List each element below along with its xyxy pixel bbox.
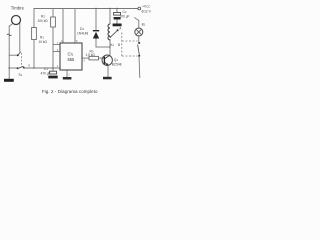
transistor Q1 circle: [102, 55, 112, 65]
svg-text:+VCC: +VCC: [142, 5, 150, 9]
svg-text:R2: R2: [41, 15, 45, 19]
wire R2 branch from rail down to R2: [52, 9, 54, 18]
junction dot diode/coil: [109, 46, 110, 47]
transistor Q1 emitter stroke: [105, 62, 108, 65]
svg-text:B: B: [118, 43, 120, 47]
lamp contact upper dot: [138, 42, 140, 44]
resistor R2 body: [51, 17, 56, 27]
bell (Timbre) gong circle: [12, 16, 21, 25]
wire bell left lead attach: [9, 23, 13, 26]
dashed horizontal lower to lamp contact: [122, 55, 138, 57]
lamp L1 cross stroke 2: [136, 29, 142, 35]
svg-text:10 kΩ: 10 kΩ: [39, 40, 48, 44]
junction dot rail/C2: [116, 8, 117, 9]
svg-text:100 kΩ: 100 kΩ: [38, 19, 49, 23]
wire diode anode to collector node: [95, 39, 97, 48]
svg-text:x: x: [28, 64, 30, 68]
svg-text:D1: D1: [80, 27, 84, 31]
switch S1b far dot: [23, 67, 25, 69]
svg-text:BC548: BC548: [112, 63, 122, 67]
wire C2 from rail: [116, 9, 118, 13]
svg-text:S1: S1: [19, 73, 23, 77]
wire switch S1b to IC pin 2: [24, 67, 60, 69]
svg-text:K1: K1: [111, 43, 115, 47]
svg-text:1N4148: 1N4148: [77, 32, 88, 36]
wire node X horizontal left segment: [9, 67, 17, 69]
ground bell side: [4, 79, 14, 82]
capacitor C1 top plate: [50, 71, 57, 74]
wire top +V rail: [34, 8, 138, 10]
wire diode to relay coil line: [96, 46, 110, 48]
relay contact A dot: [117, 29, 119, 31]
wire C2 to ground: [116, 20, 118, 24]
svg-text:B1: B1: [142, 22, 146, 26]
switch S1b arm: [18, 66, 24, 68]
wire lamp bottom to contact: [138, 36, 140, 43]
wire bell right lead down to S1a: [19, 23, 21, 52]
ground Q1 emitter: [103, 77, 112, 80]
wire relay coil from rail: [109, 9, 111, 25]
diode D1 triangle: [93, 32, 99, 39]
svg-text:Timbre: Timbre: [11, 5, 25, 10]
AC break squiggle on bell lead: [7, 34, 11, 36]
junction dot bell ground tee: [9, 67, 10, 68]
transistor Q1 base bar: [103, 57, 105, 65]
wire Q1 emitter to ground: [107, 65, 109, 77]
dashed horizontal upper to lamp contact: [122, 40, 138, 42]
wire IC pin 1 to ground: [66, 70, 68, 77]
svg-text:470 µF: 470 µF: [41, 72, 51, 76]
wire IC pin 8 from rail: [74, 9, 76, 44]
resistor R3 body: [89, 56, 99, 60]
wire bell left lead down: [8, 26, 10, 79]
svg-text:C1: C1: [44, 67, 48, 71]
wire left branch A from rail down to resistor R1: [33, 9, 35, 28]
wire S1a horizontal from left bus: [9, 54, 17, 56]
wire IC pin 7 stub: [53, 44, 60, 46]
wire below R1 down to node X wire: [33, 40, 35, 69]
wire relay coil to Q1 collector: [109, 40, 111, 56]
dashed vertical from relay armature: [121, 33, 123, 57]
lamp contact lower dot: [138, 55, 140, 57]
svg-text:C2: C2: [123, 10, 127, 14]
lamp top terminal lead: [134, 17, 139, 20]
relay K1 coil bumps: [108, 24, 110, 40]
wire below R2 to IC pin stubs and C1: [52, 27, 54, 71]
terminal +Vcc circle: [138, 7, 141, 10]
dashed link relay to contact box: [122, 33, 138, 57]
wire R3 to Q1 base: [99, 57, 104, 59]
svg-text:100 µF: 100 µF: [120, 15, 130, 19]
switch S1a arm: [18, 52, 21, 56]
relay K1 armature pivot dot: [110, 36, 112, 38]
wire diode branch from rail: [95, 9, 97, 31]
svg-text:Q1: Q1: [114, 58, 119, 62]
junction dot X wire / C1 line: [52, 67, 53, 68]
svg-text:Fig. 2 - Diagrama completo: Fig. 2 - Diagrama completo: [42, 89, 98, 94]
lamp L1 cross stroke 1: [136, 29, 142, 35]
junction dot rail/diode: [95, 8, 96, 9]
lamp contact arm: [138, 45, 140, 56]
relay K1 armature arm: [111, 31, 118, 37]
capacitor C1 bottom plate / ground bar: [48, 76, 57, 79]
svg-text:R1: R1: [40, 36, 44, 40]
wire IC pin 3 to R3: [82, 57, 89, 59]
capacitor C2 bottom plate: [114, 17, 121, 20]
switch S1a pivot dot: [17, 54, 19, 56]
svg-text:6/12 V: 6/12 V: [142, 10, 152, 14]
svg-text:CI1: CI1: [68, 52, 74, 57]
junction dot rail/relay: [109, 8, 110, 9]
capacitor C2 top plate: [114, 13, 121, 16]
lamp L1 circle: [135, 28, 143, 36]
svg-text:1,5 kΩ: 1,5 kΩ: [86, 53, 96, 57]
junction dot X wire / branch A: [33, 67, 34, 68]
wire IC pin 6 stub: [53, 51, 60, 53]
capacitor C2 ground bar: [113, 24, 122, 27]
transistor Q1 collector stroke: [105, 55, 110, 58]
wire lamp top lead: [138, 21, 140, 29]
wire IC pin 4 from rail: [62, 9, 64, 44]
IC U1 555 box: [60, 43, 82, 70]
wire contact to bottom lead: [138, 56, 141, 78]
resistor R1 body: [32, 28, 37, 40]
transistor Q1 emitter arrowhead: [106, 63, 109, 66]
diode D1 cathode bar: [93, 30, 99, 31]
svg-text:555: 555: [68, 57, 76, 62]
dashed link S1a to S1b: [20, 53, 22, 67]
ground IC pin1: [63, 77, 72, 80]
switch S1b pivot dot: [17, 67, 19, 69]
